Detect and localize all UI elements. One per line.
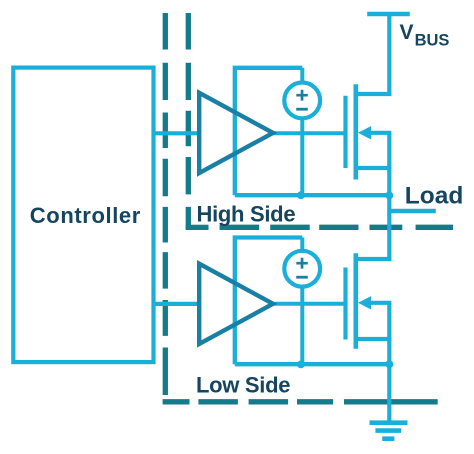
wire low-side supply top stub [300,238,304,253]
Q2 body arrow [366,301,391,305]
op-amp U1 (high-side gate driver) [199,93,273,173]
transistor Q1 (high-side MOSFET) gate bar [343,96,347,168]
Q1 body arrow [366,131,391,135]
wire VBUS to Q1 drain [387,13,391,96]
transistor Q2 (low-side MOSFET) gate bar [343,268,347,340]
wire controller to low-side driver input [154,302,202,306]
svg-text:BUS: BUS [415,32,450,50]
node junction dot Load [385,191,393,199]
svg-text:Low Side: Low Side [196,373,290,398]
wire high-side amp output to gate [271,131,347,135]
V1 plus sign [296,90,308,101]
Q1 source tap [356,166,392,170]
V1 minus sign [296,108,308,111]
V2 plus sign [296,258,308,269]
Q2 source tap [356,337,392,341]
low-side driver supply box [235,238,302,365]
op-amp U2 (low-side gate driver) [199,264,273,344]
Q1 drain tap [356,92,392,96]
wire Load stub [391,209,436,213]
wire high-side supply top stub [300,68,304,84]
wire low-side supply bottom stub [300,286,304,365]
wire high-side supply bottom stub [300,117,304,195]
node junction dot low-side source [385,360,393,368]
Q1 channel bar [353,84,358,179]
Q2 channel bar [353,253,358,349]
isolation barrier dashed line 1 (left vertical) [163,13,168,395]
wire Q1 source to output node [387,133,391,195]
svg-text:Load: Load [405,183,464,210]
isolation barrier dashed line 2 (right vertical) [186,13,191,230]
svg-text:High Side: High Side [197,202,296,227]
node: high-side output line (Load line) [235,193,389,197]
isolation barrier elbow dash [186,225,209,230]
wire output node to Q2 drain [387,195,391,261]
wire to ground [387,364,391,423]
voltage source V1 (high-side floating supply) [284,83,320,119]
isolation barrier bottom horizontal dashed line [163,399,438,404]
isolation barrier mid horizontal dashed line [220,225,453,230]
controller box [13,68,153,363]
node junction dot low-side supply [297,361,305,369]
wire Q2 source to ground node [387,303,391,364]
svg-text:V: V [400,21,414,44]
node junction dot high-side supply/output [297,191,305,199]
VBUS rail bar [367,12,410,17]
svg-text:Controller: Controller [30,203,141,228]
wire controller to high-side driver input [154,131,202,135]
voltage source V2 (low-side supply) [284,251,320,287]
high-side driver supply box [235,68,302,195]
Q2 drain tap [356,257,392,261]
ground [370,423,408,439]
node: low-side source line [235,362,389,366]
wire low-side amp output to gate [271,302,347,306]
V2 minus sign [296,276,308,279]
